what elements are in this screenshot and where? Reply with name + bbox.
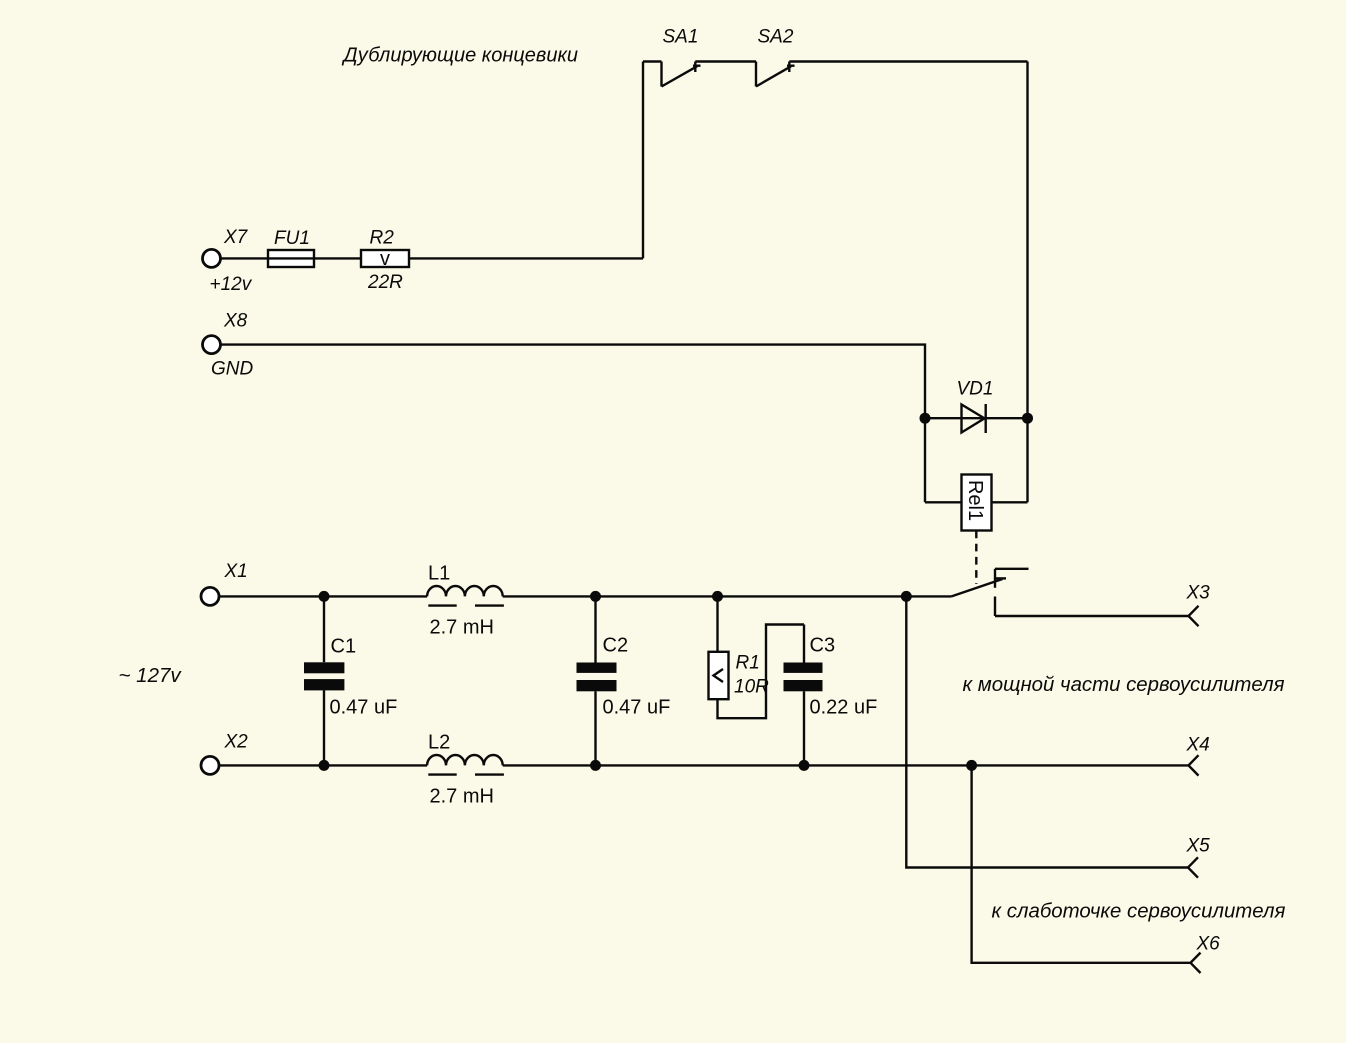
resistor R1 body <box>709 652 729 699</box>
svg-text:X5: X5 <box>1186 836 1211 857</box>
wire riser right <box>1026 62 1028 503</box>
junction dot branch X5 <box>901 591 912 602</box>
wire X2 row left <box>220 764 427 766</box>
wire to X3 <box>995 615 1189 617</box>
svg-text:X1: X1 <box>224 561 248 582</box>
svg-text:C2: C2 <box>603 635 629 657</box>
wire relay row left <box>925 501 962 503</box>
wire relay row right <box>992 501 1028 503</box>
junction dot R1 top <box>712 591 723 602</box>
svg-text:~ 127v: ~ 127v <box>119 664 183 687</box>
resistor R1 wires <box>718 596 805 718</box>
junction dot C3 bottom <box>799 760 810 771</box>
svg-text:Дублирующие концевики: Дублирующие концевики <box>342 45 579 67</box>
svg-text:к слаботочке сервоусилителя: к слаботочке сервоусилителя <box>992 901 1286 923</box>
svg-text:L2: L2 <box>428 732 450 754</box>
svg-text:X4: X4 <box>1186 735 1210 756</box>
terminal X8 <box>203 336 221 354</box>
inductor L1 <box>427 586 504 606</box>
wire X1 row right <box>503 595 952 597</box>
svg-text:0.22 uF: 0.22 uF <box>810 697 878 719</box>
svg-text:X2: X2 <box>224 732 249 753</box>
capacitor C2 wires <box>594 596 596 765</box>
junction dot C1 top <box>319 591 330 602</box>
capacitor C3 wires <box>803 625 805 766</box>
switch SA2 <box>756 62 795 87</box>
junction dot C1 bottom <box>319 760 330 771</box>
svg-text:Rel1: Rel1 <box>964 480 986 521</box>
wire FU1 to R2 <box>314 257 361 259</box>
svg-text:SA1: SA1 <box>663 27 699 48</box>
svg-text:X3: X3 <box>1186 583 1211 604</box>
svg-text:X7: X7 <box>223 227 249 248</box>
svg-text:SA2: SA2 <box>758 27 794 48</box>
svg-text:X6: X6 <box>1196 934 1221 955</box>
wire X1 row left <box>220 595 427 597</box>
svg-text:2.7 mH: 2.7 mH <box>430 786 494 808</box>
svg-text:v: v <box>380 248 390 270</box>
svg-text:22R: 22R <box>367 272 403 293</box>
resistor R2 <box>361 250 409 267</box>
wire R2 to riser <box>409 257 643 259</box>
svg-text:GND: GND <box>211 359 254 380</box>
svg-text:2.7 mH: 2.7 mH <box>430 617 494 639</box>
svg-text:C3: C3 <box>810 635 836 657</box>
terminal X7 <box>203 249 221 267</box>
wire top segment C <box>789 60 1027 62</box>
inductor L2 <box>427 755 504 775</box>
terminal X2 <box>201 756 219 774</box>
wire GND branch down <box>924 418 926 502</box>
svg-text:L1: L1 <box>428 563 450 585</box>
svg-text:10R: 10R <box>734 677 769 698</box>
wire X7 to FU1 <box>221 257 268 259</box>
svg-text:VD1: VD1 <box>957 379 994 400</box>
connector X3 <box>1189 606 1199 626</box>
wire diode row <box>925 417 1028 419</box>
connector X5 <box>1188 857 1198 877</box>
svg-text:R1: R1 <box>736 653 760 674</box>
junction dot diode right <box>1022 413 1033 424</box>
resistor R1 chevron <box>714 669 724 682</box>
svg-text:R2: R2 <box>370 228 395 249</box>
switch SA1 <box>662 62 701 87</box>
wire top segment B <box>695 60 756 62</box>
wire branch to X6 <box>972 765 1191 962</box>
wire top segment A <box>643 60 662 62</box>
junction dot branch X6 <box>966 760 977 771</box>
relay contact blade <box>952 569 1029 616</box>
wire X8 to GND branch <box>221 345 925 419</box>
svg-text:FU1: FU1 <box>274 228 310 249</box>
svg-text:C1: C1 <box>331 636 357 658</box>
relay coil Rel1 <box>962 475 992 531</box>
capacitor C2 plates <box>577 663 617 673</box>
dashed relay link <box>975 531 977 585</box>
connector X4 <box>1189 755 1199 775</box>
diode VD1 <box>962 404 986 433</box>
svg-text:к мощной части сервоусилителя: к мощной части сервоусилителя <box>963 674 1285 696</box>
junction dot C2 top <box>590 591 601 602</box>
junction dot C2 bottom <box>590 760 601 771</box>
svg-text:X8: X8 <box>223 311 248 332</box>
junction dot diode left <box>920 413 931 424</box>
connector X6 <box>1191 953 1201 973</box>
svg-text:0.47 uF: 0.47 uF <box>330 697 398 719</box>
capacitor C1 plates <box>304 662 344 673</box>
terminal X1 <box>201 587 219 605</box>
wire riser left top <box>642 62 644 259</box>
fuse FU1 <box>268 250 314 267</box>
capacitor C3 plates <box>784 663 823 673</box>
svg-text:+12v: +12v <box>210 274 253 295</box>
capacitor C1 wires <box>323 596 325 765</box>
svg-text:0.47 uF: 0.47 uF <box>603 697 671 719</box>
wire X2 row right to X4 <box>503 764 1189 766</box>
wire branch to X5 <box>906 596 1188 867</box>
